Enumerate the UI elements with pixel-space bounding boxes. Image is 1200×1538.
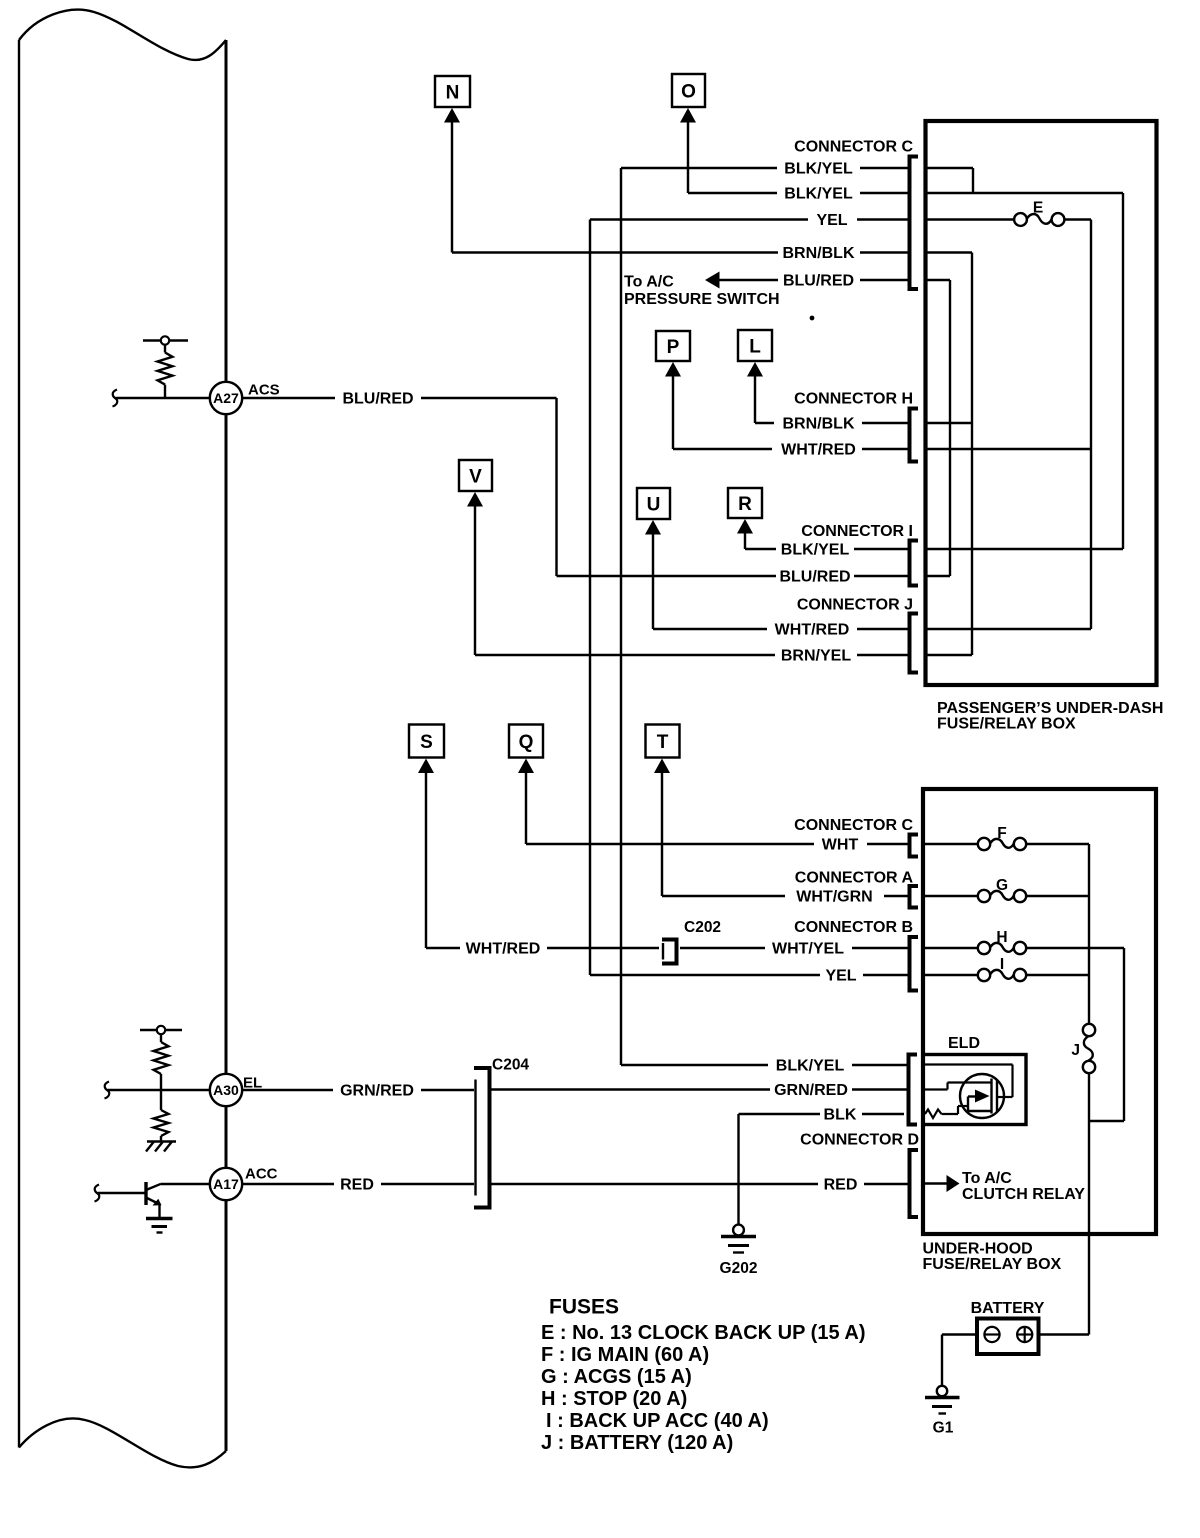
wire BLU/RED into connector I <box>557 575 908 577</box>
arrow to A/C pressure switch <box>705 272 720 289</box>
wire WHT row inside box <box>923 843 1089 845</box>
svg-text:P: P <box>667 337 680 358</box>
wire BLK/YEL into ELD <box>621 1064 908 1066</box>
wire BLK/YEL row 1 <box>621 167 908 169</box>
svg-text:H : STOP (20 A): H : STOP (20 A) <box>541 1388 687 1410</box>
ground G1 <box>925 1386 960 1414</box>
svg-text:BRN/BLK: BRN/BLK <box>783 245 855 262</box>
fuse F <box>978 825 1026 850</box>
wire YEL row <box>590 218 908 220</box>
box R <box>728 488 762 518</box>
ground G202 <box>721 1225 756 1253</box>
resistor below A30 to chassis ground <box>154 1090 169 1142</box>
wire YEL into connector B <box>590 974 908 976</box>
box N <box>435 76 470 107</box>
vertical net BRN/BLK inside box <box>971 253 973 656</box>
box U <box>637 488 670 519</box>
wire BLK to ground G202 <box>737 1114 739 1225</box>
box O <box>672 74 705 107</box>
fuse G <box>978 877 1026 902</box>
svg-text:I: I <box>1000 956 1004 973</box>
wire BLK/YEL row 2 <box>688 192 908 194</box>
svg-text:ACS: ACS <box>248 382 280 399</box>
svg-text:FUSES: FUSES <box>549 1296 619 1319</box>
vertical net fuse E output inside box <box>1090 220 1092 630</box>
svg-text:G: G <box>996 877 1008 894</box>
arrow into T <box>654 759 670 774</box>
arrow into O <box>680 108 696 123</box>
svg-text:C202: C202 <box>684 919 721 936</box>
node A30 <box>210 1074 262 1106</box>
node A17 <box>210 1166 278 1201</box>
connector bracket A <box>910 886 919 908</box>
svg-text:E: E <box>1033 200 1043 217</box>
wire A27 ACS lead with hook <box>113 390 211 407</box>
svg-text:BATTERY: BATTERY <box>971 1300 1045 1317</box>
arrow into S <box>418 759 434 774</box>
svg-text:I : BACK UP ACC (40 A): I : BACK UP ACC (40 A) <box>546 1410 769 1432</box>
harness strip bottom torn wave <box>19 1419 226 1468</box>
ELD internals: sense loop <box>925 1065 1013 1098</box>
wire from L to BRN/BLK connector H <box>755 376 908 423</box>
ELD internals: MOSFET <box>960 1074 1004 1118</box>
svg-text:WHT/GRN: WHT/GRN <box>796 889 872 906</box>
svg-text:T: T <box>657 732 669 753</box>
connector bracket B <box>910 937 919 991</box>
arrow into V <box>467 492 483 507</box>
svg-text:GRN/RED: GRN/RED <box>774 1082 848 1099</box>
arrow into Q <box>518 759 534 774</box>
svg-text:H: H <box>996 929 1007 946</box>
fuse H <box>978 929 1026 954</box>
svg-text:WHT/RED: WHT/RED <box>775 622 850 639</box>
svg-text:FUSE/RELAY BOX: FUSE/RELAY BOX <box>923 1256 1062 1273</box>
main bus vertical wire <box>225 40 228 1451</box>
fuse E <box>1014 200 1064 226</box>
fuse J <box>1071 1024 1095 1073</box>
svg-text:PASSENGER’S UNDER-DASH: PASSENGER’S UNDER-DASH <box>937 700 1163 717</box>
arrow into R <box>737 519 753 534</box>
svg-text:G : ACGS (15 A): G : ACGS (15 A) <box>541 1366 692 1388</box>
svg-text:To A/C: To A/C <box>962 1170 1012 1187</box>
battery positive terminal <box>1017 1327 1032 1342</box>
box S <box>409 725 444 758</box>
wire from N down to BRN/BLK <box>451 122 453 253</box>
svg-text:J : BATTERY (120 A): J : BATTERY (120 A) <box>541 1432 733 1454</box>
svg-text:V: V <box>469 467 482 488</box>
wire BLK from G202 to ELD <box>739 1113 905 1115</box>
wire GRN/RED from C204 to ELD <box>492 1088 908 1090</box>
vertical net BLU/RED inside box <box>949 280 951 576</box>
svg-text:F: F <box>997 825 1006 842</box>
svg-text:A17: A17 <box>213 1176 239 1192</box>
vertical net battery feed to fuses F G I <box>1088 844 1090 1024</box>
box P <box>656 331 690 361</box>
svg-text:WHT/RED: WHT/RED <box>466 941 541 958</box>
svg-text:N: N <box>446 83 460 104</box>
svg-text:BLK/YEL: BLK/YEL <box>781 542 850 559</box>
svg-text:Q: Q <box>519 732 534 753</box>
svg-text:RED: RED <box>824 1177 858 1194</box>
connector bracket D <box>910 1150 919 1217</box>
svg-text:UNDER-HOOD: UNDER-HOOD <box>923 1241 1033 1258</box>
wire RED from A17 to C204 <box>242 1183 474 1185</box>
svg-text:EL: EL <box>243 1075 262 1092</box>
resistor above A30 pull-up <box>140 1026 182 1090</box>
svg-text:YEL: YEL <box>816 212 847 229</box>
svg-text:R: R <box>738 494 752 515</box>
wire WHT/YEL row inside box <box>923 947 1124 949</box>
arrow to A/C clutch relay <box>947 1175 960 1192</box>
connector C202 <box>662 940 677 964</box>
box T <box>646 725 680 758</box>
connector bracket H <box>910 409 919 462</box>
svg-text:CONNECTOR I: CONNECTOR I <box>801 523 913 540</box>
svg-text:ELD: ELD <box>948 1035 980 1052</box>
connector bracket J <box>910 614 919 673</box>
wire WHT/YEL from C202 to connector B <box>680 947 908 949</box>
fuse legend list <box>541 1322 865 1454</box>
svg-text:O: O <box>681 82 696 103</box>
chassis ground below A30 <box>146 1142 176 1152</box>
box V <box>459 460 492 491</box>
svg-text:CONNECTOR B: CONNECTOR B <box>794 919 913 936</box>
harness strip top torn wave <box>19 10 226 60</box>
svg-text:A27: A27 <box>213 390 239 406</box>
svg-text:BRN/BLK: BRN/BLK <box>783 416 855 433</box>
svg-text:RED: RED <box>340 1177 374 1194</box>
wire GRN/RED from A30 to C204 <box>242 1089 474 1091</box>
svg-text:BLK: BLK <box>824 1107 857 1124</box>
connector C204 <box>474 1068 490 1208</box>
arrow into L <box>747 362 763 377</box>
wire WHT/GRN row inside box <box>923 895 1089 897</box>
fuse I <box>978 956 1026 981</box>
svg-text:CONNECTOR J: CONNECTOR J <box>797 597 913 614</box>
svg-text:F : IG MAIN (60 A): F : IG MAIN (60 A) <box>541 1344 709 1366</box>
svg-text:G1: G1 <box>933 1420 954 1437</box>
svg-text:WHT: WHT <box>822 837 859 854</box>
svg-text:WHT/RED: WHT/RED <box>781 442 856 459</box>
svg-text:WHT/YEL: WHT/YEL <box>772 941 844 958</box>
connector bracket C <box>910 157 919 290</box>
ELD unit box <box>923 1055 1026 1125</box>
vertical net WHT/YEL stop fuse feed <box>1123 948 1125 1121</box>
wire BLU/RED from A27 <box>242 398 556 576</box>
wire RED to A/C clutch relay <box>923 1182 947 1184</box>
wire YEL row inside box <box>923 974 1089 976</box>
wire from Q to WHT connector C <box>526 773 908 845</box>
arrow into N <box>444 108 460 123</box>
wires inside under-dash box rows <box>926 168 1124 655</box>
svg-text:CONNECTOR C: CONNECTOR C <box>794 139 913 156</box>
svg-text:BLU/RED: BLU/RED <box>783 273 854 290</box>
wire from P to WHT/RED connector H <box>673 376 908 449</box>
wire from R to BLK/YEL connector I <box>745 533 908 549</box>
svg-text:GRN/RED: GRN/RED <box>340 1083 414 1100</box>
wire RED from C204 to connector D <box>492 1183 908 1185</box>
svg-text:BRN/YEL: BRN/YEL <box>781 648 851 665</box>
box L <box>738 330 772 361</box>
battery negative terminal <box>984 1327 999 1342</box>
node A27 <box>210 382 280 415</box>
long vertical net BLK/YEL <box>620 168 622 1065</box>
svg-text:CONNECTOR D: CONNECTOR D <box>800 1132 919 1149</box>
earth ground at transistor emitter <box>146 1219 173 1233</box>
vertical net BLK/YEL inside box <box>1122 193 1124 549</box>
svg-text:PRESSURE SWITCH: PRESSURE SWITCH <box>624 291 780 308</box>
wire A30 EL lead with hook <box>105 1082 211 1099</box>
connector bracket C under-hood <box>910 835 919 857</box>
transistor Q at A17 <box>146 1182 210 1217</box>
svg-text:J: J <box>1071 1042 1080 1059</box>
svg-text:CONNECTOR C: CONNECTOR C <box>794 817 913 834</box>
svg-text:G202: G202 <box>720 1260 758 1277</box>
svg-text:CONNECTOR H: CONNECTOR H <box>794 391 913 408</box>
svg-text:BLU/RED: BLU/RED <box>779 569 850 586</box>
connector bracket ELD rows <box>909 1055 918 1125</box>
under-hood fuse/relay box <box>923 789 1156 1234</box>
wire from U to WHT/RED connector J <box>653 534 908 629</box>
svg-text:YEL: YEL <box>825 968 856 985</box>
wire from T to WHT/GRN connector A <box>662 773 908 897</box>
wire battery negative to ground G1 <box>942 1335 977 1387</box>
svg-text:BLK/YEL: BLK/YEL <box>784 186 853 203</box>
wire from S to WHT/RED C202 <box>426 773 659 949</box>
svg-text:E : No. 13 CLOCK BACK UP (15 A: E : No. 13 CLOCK BACK UP (15 A) <box>541 1322 865 1344</box>
svg-text:CONNECTOR A: CONNECTOR A <box>795 870 914 887</box>
ELD internals: shunt resistor on BLK <box>925 1106 968 1118</box>
passenger's under-dash fuse/relay box <box>926 121 1157 685</box>
transistor at A17: base lead with hook <box>95 1185 147 1202</box>
resistor above A27 pull-up <box>143 336 188 398</box>
svg-text:FUSE/RELAY BOX: FUSE/RELAY BOX <box>937 716 1076 733</box>
wire BLU/RED to A/C pressure switch <box>719 279 908 281</box>
connector bracket I <box>910 541 919 586</box>
wire BRN/BLK row <box>452 251 908 253</box>
wire from O down to BLK/YEL row 2 <box>687 122 689 193</box>
svg-text:U: U <box>647 495 661 516</box>
svg-text:ACC: ACC <box>245 1166 278 1183</box>
svg-text:C204: C204 <box>492 1057 529 1074</box>
svg-text:BLK/YEL: BLK/YEL <box>784 161 853 178</box>
long vertical net YEL <box>589 220 591 976</box>
ELD internals: gate feed <box>925 1083 991 1090</box>
svg-text:BLK/YEL: BLK/YEL <box>776 1058 845 1075</box>
svg-text:BLU/RED: BLU/RED <box>342 391 413 408</box>
svg-text:L: L <box>749 337 761 358</box>
svg-text:CLUTCH RELAY: CLUTCH RELAY <box>962 1186 1085 1203</box>
svg-text:A30: A30 <box>213 1082 239 1098</box>
harness strip left edge <box>18 40 20 1448</box>
wire from V to BRN/YEL connector J <box>475 506 908 655</box>
svg-text:S: S <box>420 732 433 753</box>
arrow into U <box>645 520 661 535</box>
wire from fuse J to battery positive <box>1039 1074 1125 1335</box>
artifact dot <box>810 316 815 321</box>
svg-text:To A/C: To A/C <box>624 274 674 291</box>
arrow into P <box>665 362 681 377</box>
box Q <box>509 725 543 758</box>
